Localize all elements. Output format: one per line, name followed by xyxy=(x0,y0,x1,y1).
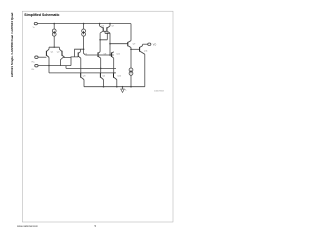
transistor Q11 output xyxy=(140,44,145,86)
wire box to Q5 base xyxy=(71,56,78,59)
wire mirror base tie xyxy=(100,31,110,40)
wire base loop box xyxy=(61,58,72,66)
svg-text:Simplified Schematic: Simplified Schematic xyxy=(24,13,59,17)
sidebar part-number vertical text xyxy=(10,12,14,77)
transistor Q9 driver xyxy=(128,41,131,48)
title "Simplified Schematic" xyxy=(24,13,59,17)
transistor Q5 second stage xyxy=(78,49,81,73)
transistor Q7 mirror PNP right xyxy=(107,24,110,44)
transistor Q2 input PNP right xyxy=(59,49,64,57)
wire lower base bus xyxy=(49,72,116,74)
footer page number 5 xyxy=(95,224,97,228)
svg-text:10007833: 10007833 xyxy=(154,90,165,92)
junction dots xyxy=(48,23,132,88)
current source I2 xyxy=(82,24,86,50)
transistor Q8 gain stage xyxy=(98,40,101,69)
svg-text:V-: V- xyxy=(125,89,127,91)
V+ supply terminal xyxy=(34,22,37,24)
component value labels xyxy=(32,26,157,92)
transistor Q10 bottom mirror xyxy=(114,73,117,87)
wire Q5 collector tie loop xyxy=(75,49,84,57)
node IN- terminal xyxy=(35,64,38,67)
current source I1 xyxy=(52,24,56,48)
footer www.national.com xyxy=(17,224,38,228)
svg-text:www.national.com: www.national.com xyxy=(17,224,38,228)
transistor Q3 bottom mirror xyxy=(81,73,84,87)
wire mid base bus xyxy=(85,54,113,56)
wire driver emitter drop xyxy=(130,48,132,69)
svg-text:VO: VO xyxy=(153,43,157,46)
current source I3 xyxy=(129,68,133,87)
transistor Q6 mirror PNP left xyxy=(100,24,104,40)
transistor Q1 input PNP left xyxy=(46,49,49,57)
wire input pair emitter bus xyxy=(49,47,59,49)
wire output base xyxy=(131,48,139,50)
transistor Q12 mid right xyxy=(111,52,113,58)
wire Q1 collector drop xyxy=(48,57,50,73)
wire Q7 to Q9 base xyxy=(110,43,128,45)
wire right rail drop xyxy=(130,24,132,41)
node IN+ terminal xyxy=(35,56,47,59)
wire bottom rail xyxy=(84,86,145,88)
ground symbol xyxy=(121,87,125,93)
wire I2 drop to mid bus xyxy=(84,49,86,55)
page frame border xyxy=(22,11,173,222)
wire Q7 collector to mid bus xyxy=(109,44,111,55)
wire output lead xyxy=(143,43,148,45)
svg-text:IN-: IN- xyxy=(32,69,35,71)
wire busA drop xyxy=(113,58,115,73)
figure id 10007833 xyxy=(154,90,165,92)
wire IN- bus xyxy=(38,65,71,67)
svg-text:LMV321 Single / LMV358 Dual /: LMV321 Single / LMV358 Dual / LMV324 Qua… xyxy=(10,12,14,77)
node VO terminal xyxy=(148,43,151,45)
transistor Q4 bottom mirror xyxy=(100,68,103,86)
wire top V+ rail xyxy=(37,23,131,25)
wire bus to second stage xyxy=(66,66,116,69)
